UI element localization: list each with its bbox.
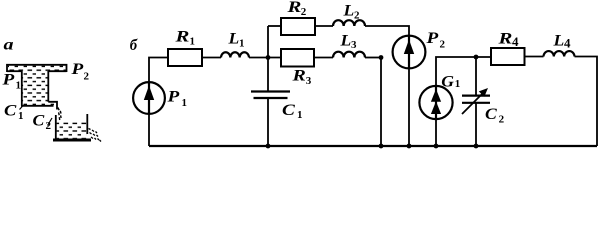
inductor L2 [333,20,365,26]
svg-text:P: P [425,29,438,47]
svg-text:a: a [4,35,14,53]
wire: L2 to P2 corner [365,26,409,36]
label P1 (circuit) [166,87,187,109]
rail junction dot (G1) [434,144,439,149]
wire: R3 to L3 [314,57,333,59]
wire: P1 branch vertical [149,58,168,84]
label P2 (circuit) [425,29,445,51]
wire: top branch corner to R2 [268,25,281,27]
svg-text:R: R [497,30,512,48]
svg-text:P: P [166,87,179,105]
resistor R3 [281,49,314,67]
node B junction dot [379,55,384,60]
rail junction dot (P2) [407,144,412,149]
inductor L4 [544,51,575,56]
svg-text:R: R [174,28,189,46]
rail junction dot (C2) [474,144,479,149]
current source G1 [419,86,452,119]
svg-text:G: G [441,72,454,90]
label R4 [497,30,519,49]
label P1 (figure a) [1,70,21,92]
svg-text:3: 3 [351,39,357,51]
tank 2 liquid fill [57,123,87,139]
wire: G1 down to bottom rail [435,119,437,147]
svg-text:2: 2 [46,120,52,132]
wire: L4 to right edge [575,57,598,147]
svg-text:б: б [130,37,139,55]
svg-text:L: L [227,29,239,47]
label C1 (circuit) [282,101,303,121]
inductor L3 [333,52,365,58]
svg-text:L: L [342,1,354,19]
wire: R2 to L2 [315,25,333,27]
variable capacitor C2 [462,57,490,146]
svg-text:2: 2 [499,113,505,125]
tank 2 bottom [53,139,91,142]
svg-text:4: 4 [564,36,571,51]
inductor L1 [221,52,249,57]
current source P2 [393,36,426,69]
rail junction dot (C1) [266,144,271,149]
svg-text:C: C [33,111,46,129]
falling stream marks [58,108,61,121]
rail junction dot (node B) [379,144,384,149]
svg-text:2: 2 [354,9,360,21]
outflow spray marks [89,129,102,142]
capacitor C1 [251,58,290,147]
svg-text:4: 4 [512,34,519,49]
tank 2 left wall [55,115,57,140]
label L4 [552,31,571,50]
resistor R2 [281,18,315,35]
leader line C1 [20,105,24,110]
svg-text:P: P [70,60,83,78]
svg-text:P: P [1,70,14,88]
wire: G1 corner to R4 [436,57,491,87]
svg-text:C: C [485,105,498,123]
node C junction dot (C2 top) [474,55,479,60]
svg-text:C: C [4,101,17,119]
current source P1 [133,82,165,114]
svg-text:1: 1 [297,109,303,121]
node A junction dot [266,55,271,60]
svg-text:2: 2 [440,38,446,50]
svg-text:1: 1 [455,78,461,90]
svg-text:1: 1 [239,37,245,49]
label L2 [342,1,360,21]
label C2 (circuit) [485,105,505,126]
svg-text:1: 1 [182,97,188,109]
svg-text:L: L [552,31,564,49]
svg-text:1: 1 [16,80,22,92]
wire: R4 to L4 [525,56,544,58]
resistor R1 [168,49,202,66]
resistor R4 [491,48,525,65]
svg-text:L: L [339,31,351,49]
svg-text:R: R [286,0,301,16]
vessel outline (tank 1) [7,65,67,110]
svg-text:R: R [291,66,305,84]
label L3 [339,31,357,51]
wire: L3 to node B [365,57,381,59]
label C1 (figure a) [4,101,24,122]
wire: P2 down to bottom rail [408,69,410,147]
svg-text:C: C [282,101,295,119]
label R2 [286,0,306,18]
wire: R1 to L1 [202,57,221,59]
svg-text:1: 1 [190,35,196,47]
label P2 (figure a) [70,60,89,83]
svg-text:1: 1 [18,110,24,122]
wire: node A up to top branch [267,26,269,58]
wire: node B down to bottom rail [380,58,382,147]
bottom rail wire [149,145,597,147]
label R1 [174,28,195,48]
label G1 [441,72,460,90]
svg-text:2: 2 [84,71,90,83]
label C2 (figure a) [33,111,52,132]
wire: L1 to node A [249,57,281,59]
label L1 [227,29,244,49]
svg-text:3: 3 [306,75,312,87]
label R3 [291,66,311,87]
vessel liquid fill (tank 1) [8,65,66,106]
svg-text:2: 2 [301,6,307,18]
tank 2 right wall [86,114,88,134]
leader line C2 [48,118,53,126]
